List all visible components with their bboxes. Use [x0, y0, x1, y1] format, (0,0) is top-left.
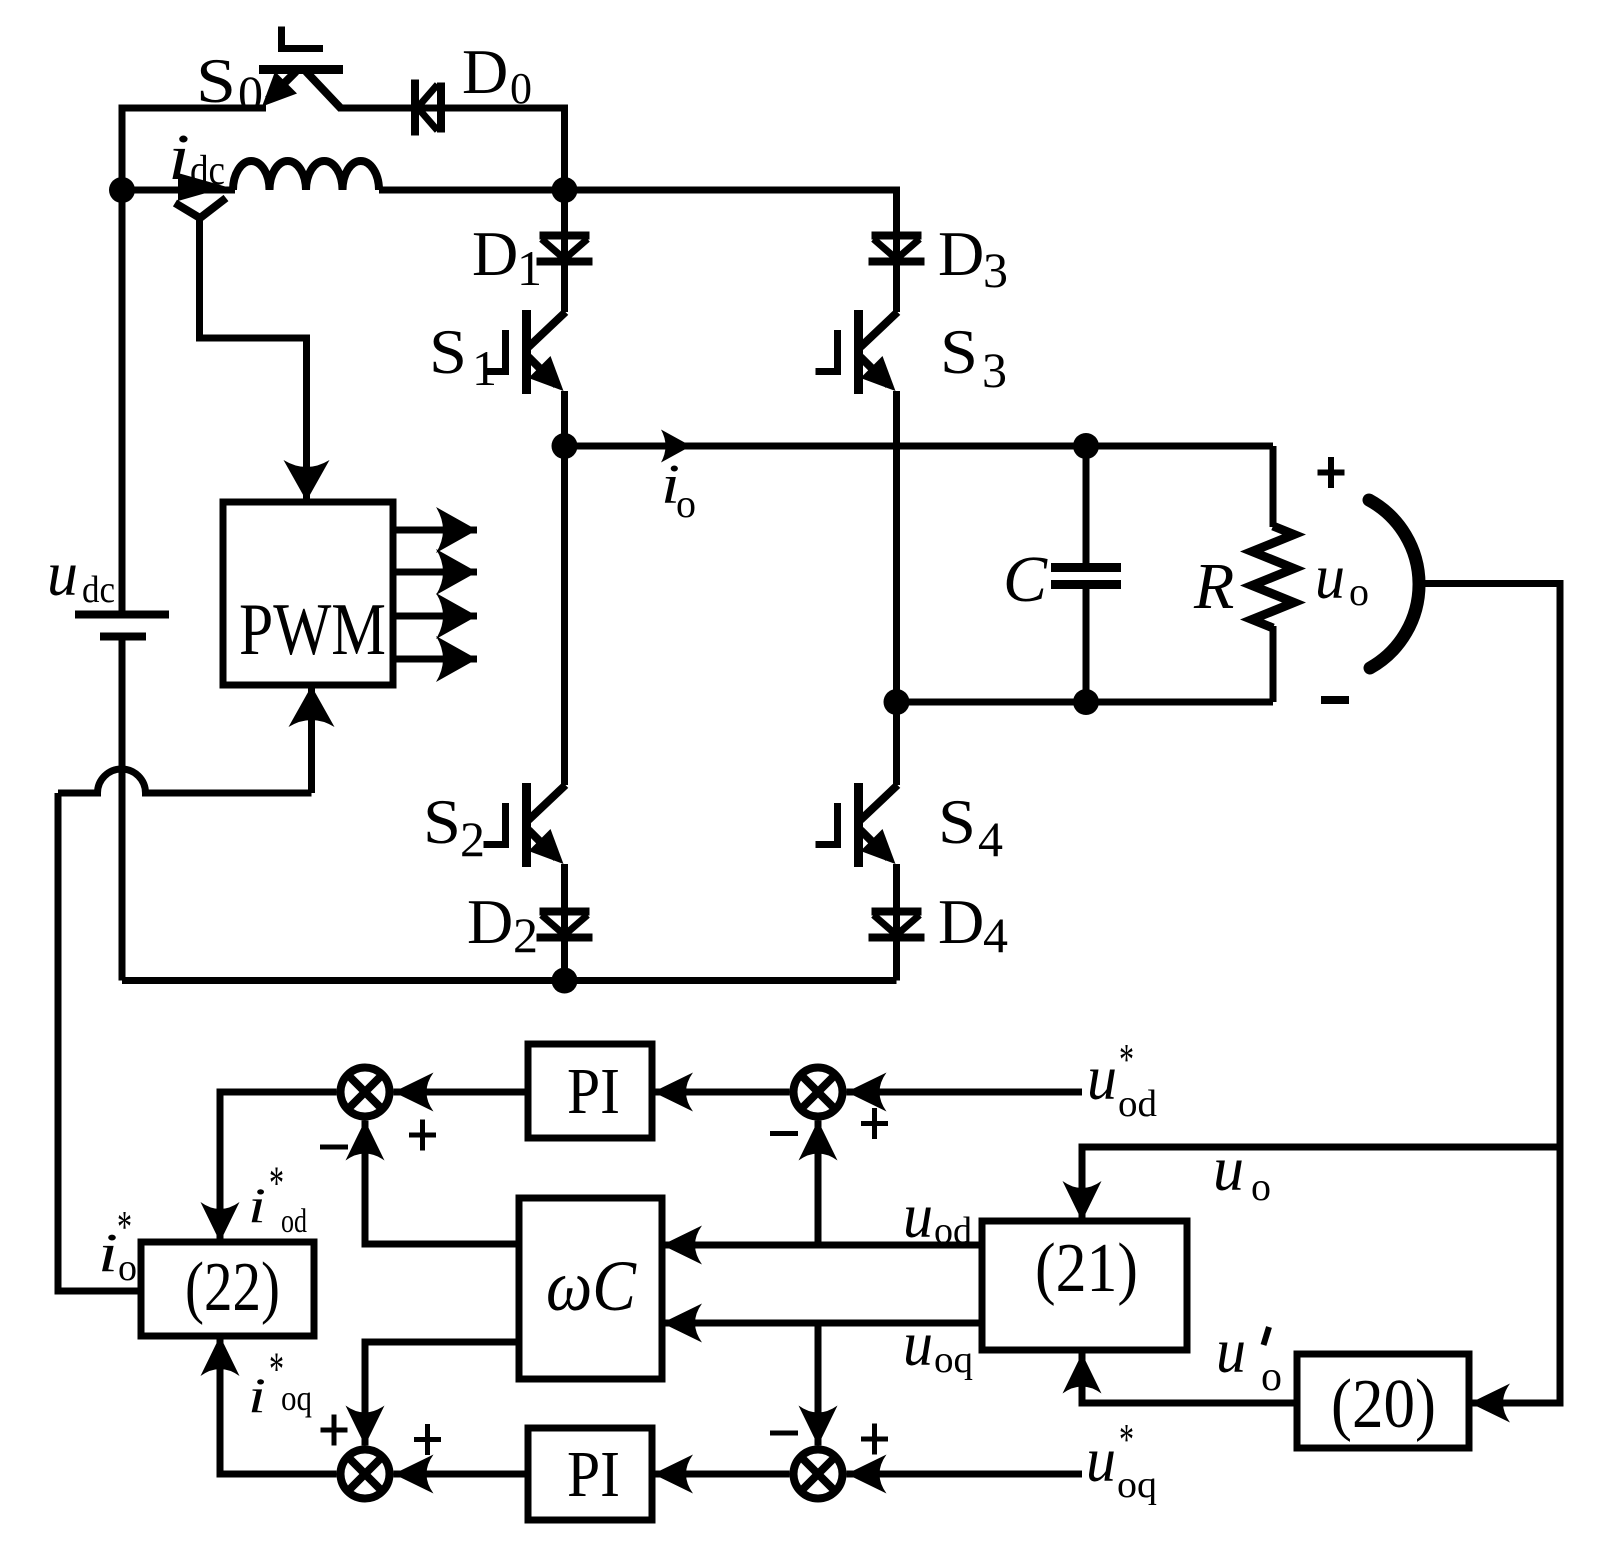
diode D3: [869, 236, 925, 262]
node: junction top of left leg: [552, 177, 578, 203]
wire: bottom rail: [122, 977, 897, 984]
svg-text:3: 3: [982, 342, 1007, 398]
svg-text:ωC: ωC: [546, 1246, 637, 1326]
svg-text:dc: dc: [190, 148, 225, 194]
wire: top rail to right leg: [565, 190, 897, 312]
svg-text:R: R: [1193, 550, 1234, 623]
svg-text:o: o: [1349, 569, 1369, 614]
diode D4: [869, 912, 925, 938]
label - output: [1321, 696, 1349, 704]
wire: u_od into wC: [662, 1242, 982, 1249]
wire: i_o* feedback with hop: [58, 769, 312, 793]
wire: right leg mid: [893, 391, 900, 785]
svg-text:u: u: [1086, 1424, 1116, 1495]
svg-text:dc: dc: [82, 569, 115, 611]
svg-text:u: u: [1087, 1042, 1117, 1113]
block wC: [519, 1198, 662, 1379]
wire: wC out bottom to BL: [365, 1342, 519, 1446]
wire: u_oq into wC: [662, 1320, 982, 1327]
transistor S1: [484, 310, 566, 394]
inductor L: [233, 161, 379, 190]
svg-text:PI: PI: [567, 1055, 620, 1128]
pwm input from sensor: [200, 218, 307, 501]
wire: left leg mid: [561, 391, 568, 785]
wire: left leg bottom: [561, 864, 568, 981]
block PWM: [223, 502, 393, 685]
wire: i_oq* into (22): [220, 1336, 337, 1474]
wire: inductor to junction: [379, 187, 565, 194]
svg-text:od: od: [281, 1203, 307, 1240]
node: bottom rail junction: [552, 968, 578, 994]
current arrow i_dc: [178, 173, 227, 201]
svg-text:1: 1: [517, 240, 542, 296]
svg-text:*: *: [1119, 1035, 1134, 1084]
diode D1: [537, 236, 593, 262]
wire: dc+ rail up to S0 branch: [122, 108, 266, 190]
transistor S4: [816, 783, 898, 867]
wire: S0 to D0 to right corner down to junction: [338, 108, 565, 190]
svg-text:PI: PI: [567, 1438, 620, 1511]
transistor S2: [484, 783, 566, 867]
transistor S3: [816, 310, 898, 394]
svg-text:o: o: [1251, 1164, 1271, 1209]
svg-text:u: u: [1315, 541, 1345, 612]
svg-text:D: D: [472, 218, 518, 289]
label + BR: [861, 1437, 888, 1442]
svg-text:i: i: [248, 1367, 266, 1423]
block (21): [982, 1221, 1187, 1350]
svg-text:i: i: [168, 121, 190, 194]
svg-text:u: u: [1213, 1133, 1244, 1204]
node: right leg midpoint: [884, 689, 910, 715]
svg-text:u: u: [1216, 1315, 1246, 1386]
arrow i_o: [661, 430, 691, 463]
block PI bottom: [528, 1428, 652, 1520]
svg-text:D: D: [938, 886, 984, 957]
capacitor C: [1083, 446, 1090, 565]
svg-text:0: 0: [238, 65, 263, 121]
svg-text:2: 2: [460, 811, 485, 867]
svg-text:u: u: [903, 1308, 933, 1379]
wire: dc rail to inductor: [122, 187, 235, 194]
wire: u_od* ref: [847, 1089, 1083, 1096]
node: junction dc rail left: [109, 177, 135, 203]
wire: u_o sense to (20): [1416, 584, 1560, 1404]
block PI top: [528, 1044, 652, 1138]
svg-text:S: S: [940, 316, 978, 387]
svg-text:C: C: [1003, 543, 1048, 616]
svg-text:*: *: [117, 1201, 132, 1252]
summing junction BR: [794, 1450, 843, 1499]
svg-text:oq: oq: [281, 1378, 312, 1418]
svg-text:od: od: [934, 1210, 972, 1252]
transistor S0: [259, 27, 343, 109]
svg-text:0: 0: [510, 64, 532, 113]
summing junction TR: [794, 1068, 843, 1117]
wire: (20) out to (21): [1082, 1354, 1297, 1404]
svg-text:D: D: [462, 36, 508, 107]
svg-text:D: D: [467, 886, 513, 957]
block (22): [141, 1242, 314, 1336]
svg-text:oq: oq: [934, 1339, 973, 1381]
svg-text:S: S: [423, 786, 461, 857]
block (20): [1297, 1354, 1469, 1448]
label + output: [1318, 470, 1345, 476]
svg-text:S: S: [429, 316, 467, 387]
svg-text:(21): (21): [1035, 1230, 1138, 1307]
svg-text:i: i: [98, 1222, 118, 1283]
resistor R: [1270, 446, 1277, 527]
label - BR: [770, 1431, 798, 1436]
current sensor hook: [175, 198, 226, 218]
svg-text:u: u: [903, 1180, 933, 1251]
wire: PI top out: [394, 1089, 529, 1096]
wire: wC out top to TL: [365, 1121, 519, 1245]
wire: dc- rail: [119, 640, 126, 981]
svg-text:od: od: [1118, 1083, 1157, 1125]
svg-text:S: S: [938, 786, 976, 857]
label - TR: [770, 1131, 798, 1136]
wire: right leg bottom: [893, 864, 900, 981]
label + BL-left: [321, 1428, 348, 1433]
output wire i_o: [565, 443, 1274, 450]
wire: u_o branch to (21): [1082, 1147, 1560, 1221]
svg-text:(22): (22): [185, 1249, 280, 1326]
label - TL: [320, 1145, 348, 1150]
diode D2: [537, 912, 593, 938]
svg-text:1: 1: [472, 340, 497, 396]
sense arc: [1369, 500, 1419, 668]
svg-text:i: i: [248, 1177, 266, 1233]
summing junction TL: [341, 1068, 390, 1117]
svg-text:4: 4: [978, 811, 1003, 867]
label + TR: [861, 1121, 888, 1126]
svg-text:4: 4: [983, 907, 1008, 963]
svg-text:oq: oq: [1117, 1464, 1157, 1506]
wire: PI bottom out: [394, 1471, 529, 1478]
wire: bottom output: [897, 699, 1274, 706]
wire: left leg top segment: [561, 190, 568, 312]
label + BL-right: [414, 1437, 441, 1442]
wire: u_oq* ref: [847, 1471, 1083, 1478]
svg-text:2: 2: [513, 907, 538, 963]
svg-text:o: o: [676, 481, 696, 526]
svg-text:D: D: [938, 218, 984, 289]
label + TL: [409, 1133, 436, 1138]
svg-text:o: o: [118, 1247, 137, 1289]
battery u_dc: [119, 190, 126, 611]
node: cap bottom: [1073, 689, 1099, 715]
svg-text:*: *: [1119, 1415, 1134, 1464]
node: left leg midpoint: [552, 433, 578, 459]
diode D0: [415, 80, 441, 136]
svg-text:3: 3: [983, 242, 1008, 298]
svg-text:o: o: [1261, 1354, 1282, 1400]
wire: BR to PI bottom: [653, 1471, 790, 1478]
svg-text:u: u: [47, 538, 78, 609]
wire: i_od* into (22): [220, 1092, 337, 1242]
wire: u_od branch up to TR: [815, 1121, 822, 1246]
node: cap top: [1073, 433, 1099, 459]
wire: TR to PI top: [653, 1089, 790, 1096]
svg-text:S: S: [196, 45, 236, 116]
wire: u_oq branch down to BR: [815, 1323, 822, 1446]
svg-text:(20): (20): [1331, 1366, 1436, 1443]
summing junction BL: [341, 1450, 390, 1499]
pwm gate arrows: [393, 527, 477, 534]
svg-text:PWM: PWM: [239, 589, 386, 671]
